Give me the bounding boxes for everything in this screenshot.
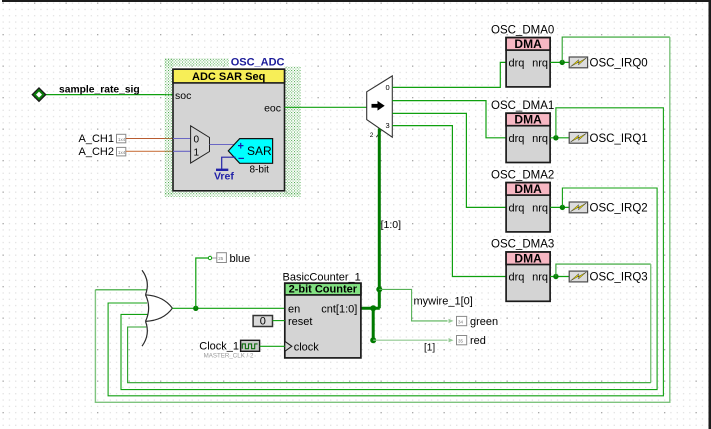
svg-text:cnt[1:0]: cnt[1:0]: [321, 303, 357, 315]
svg-text:8-bit: 8-bit: [250, 164, 270, 175]
svg-text:DMA: DMA: [514, 182, 542, 196]
wire demux out1 to DMA1 drq: [392, 101, 506, 138]
DMA3 block: [506, 251, 550, 301]
svg-text:drq: drq: [509, 202, 525, 214]
demux bus width marker 2: [370, 131, 382, 139]
wire A_CH2: [126, 150, 173, 152]
terminal green arrow: [449, 319, 454, 323]
wire DMA2 nrq to isr: [550, 206, 569, 208]
pin clock with edge triangle: [285, 341, 319, 353]
svg-text:MASTER_CLK / 2: MASTER_CLK / 2: [204, 353, 254, 360]
selection hatch around OSC_ADC: [165, 54, 303, 197]
wire sample_rate_sig to soc: [46, 94, 174, 96]
terminal A_CH2: [117, 147, 126, 156]
wire demux out0 to DMA0 drq: [392, 62, 506, 87]
wire DMA1 nrq to isr: [550, 137, 569, 139]
svg-text:drq: drq: [509, 57, 525, 69]
svg-text:A_CH1: A_CH1: [79, 133, 114, 145]
wire feedback loop DMA2 to OR input 3: [121, 188, 657, 390]
svg-text:OSC_DMA0: OSC_DMA0: [491, 24, 554, 36]
wire mux output to SAR: [210, 144, 235, 146]
junction DMA0 nrq: [560, 60, 565, 65]
terminal sample_rate_sig diamond: [32, 88, 45, 101]
svg-text:DMA: DMA: [514, 251, 542, 265]
wire mux input 0 (blue): [173, 138, 191, 140]
stub to blue box: [212, 257, 217, 259]
wire feedback loop DMA0 to OR input 1: [562, 37, 670, 62]
terminal red box: [457, 336, 467, 345]
open pin circle blue: [208, 256, 211, 259]
wire demux out2 to DMA2 drq: [392, 113, 506, 207]
wire OR output to counter en: [172, 307, 285, 309]
junction OR output: [193, 306, 198, 311]
svg-text:OSC_DMA2: OSC_DMA2: [491, 169, 554, 181]
wire feedback loop DMA1 to OR input 2: [108, 108, 663, 396]
wire eoc to demux: [285, 106, 367, 108]
svg-text:1x4: 1x4: [118, 150, 126, 155]
wire mywire_1[0] branch: [379, 289, 447, 321]
svg-text:0: 0: [194, 134, 200, 145]
bus [1:0] from counter to demux: [361, 129, 380, 341]
DMA0 block: [506, 37, 550, 87]
wire clock to counter: [260, 345, 285, 347]
ADC block U_ADC body: [173, 69, 285, 191]
svg-text:nrq: nrq: [532, 202, 548, 214]
terminal blue box: [217, 253, 227, 263]
svg-text:Clock_1: Clock_1: [199, 341, 239, 353]
svg-text:blue: blue: [230, 253, 251, 265]
wire DMA0 nrq to isr: [550, 61, 569, 63]
mux inside ADC: [191, 126, 210, 163]
wire A_CH1: [126, 138, 173, 140]
wire to blue terminal: [196, 258, 208, 308]
svg-text:drq: drq: [509, 133, 525, 145]
terminal green box: [457, 316, 467, 325]
Vref symbol: [214, 157, 236, 182]
svg-text:OSC_IRQ3: OSC_IRQ3: [590, 272, 648, 284]
canvas right border: [709, 0, 711, 429]
wire mux input 1 (blue): [173, 150, 191, 152]
wire feedback loop DMA3 to OR input 4: [556, 264, 651, 276]
svg-text:green: green: [470, 316, 498, 328]
terminal A_CH1: [117, 134, 126, 143]
svg-text:DMA: DMA: [514, 37, 542, 51]
svg-text:Vref: Vref: [214, 171, 234, 183]
DMA2 block: [506, 182, 550, 232]
svg-text:0: 0: [386, 83, 390, 92]
svg-text:nrq: nrq: [532, 272, 548, 284]
svg-text:[1]: [1]: [424, 342, 435, 353]
svg-text:+: +: [238, 140, 244, 152]
svg-text:drq: drq: [509, 272, 525, 284]
isr OSC_IRQ1 icon: [569, 132, 587, 143]
svg-text:OSC_IRQ1: OSC_IRQ1: [590, 133, 648, 145]
junction DMA1 nrq: [553, 135, 558, 140]
terminal red arrow: [449, 338, 454, 342]
svg-text:35: 35: [458, 339, 464, 344]
junction DMA3 nrq: [553, 274, 558, 279]
wire red branch [1]: [373, 339, 447, 341]
wire 0 to reset: [273, 320, 285, 322]
junction on bus (cnt): [370, 305, 376, 311]
SAR converter symbol: [228, 139, 272, 165]
svg-text:0: 0: [260, 316, 266, 328]
svg-text:A_CH2: A_CH2: [79, 146, 114, 158]
canvas top border: [2, 0, 711, 2]
wire demux out3 to DMA3 drq: [392, 126, 506, 277]
svg-text:nrq: nrq: [532, 57, 548, 69]
svg-text:eoc: eoc: [264, 103, 281, 115]
svg-text:OSC_DMA3: OSC_DMA3: [491, 239, 554, 251]
svg-text:OSC_IRQ0: OSC_IRQ0: [590, 58, 648, 70]
constant 0 box: [253, 316, 272, 328]
svg-text:25: 25: [218, 256, 224, 261]
svg-text:red: red: [470, 335, 486, 347]
svg-text:reset: reset: [288, 316, 312, 328]
svg-text:BasicCounter_1: BasicCounter_1: [283, 271, 361, 283]
svg-text:mywire_1[0]: mywire_1[0]: [414, 296, 473, 308]
junction DMA2 nrq: [560, 205, 565, 210]
svg-text:OSC_DMA1: OSC_DMA1: [491, 100, 554, 112]
svg-text:SAR: SAR: [247, 144, 272, 158]
svg-text:1: 1: [194, 147, 200, 158]
demux U_DEMUX: [367, 76, 393, 137]
svg-text:2: 2: [370, 132, 374, 139]
svg-text:ADC SAR Seq: ADC SAR Seq: [192, 71, 265, 83]
svg-text:nrq: nrq: [532, 133, 548, 145]
svg-text:[1:0]: [1:0]: [381, 219, 402, 231]
svg-text:−: −: [238, 153, 244, 165]
DMA1 block: [506, 113, 550, 163]
junction on bus (bit1 tap): [370, 337, 376, 343]
svg-text:sample_rate_sig: sample_rate_sig: [59, 85, 140, 96]
svg-text:clock: clock: [294, 342, 320, 354]
counter block body: [285, 283, 361, 358]
counter header 2-bit Counter: [285, 283, 361, 295]
isr OSC_IRQ3 icon: [569, 271, 587, 282]
svg-text:OSC_ADC: OSC_ADC: [231, 57, 285, 69]
svg-text:3: 3: [386, 121, 390, 130]
clock Clock_1 icon: [241, 340, 260, 351]
svg-text:34: 34: [458, 320, 464, 325]
junction on bus (mywire tap): [376, 286, 382, 292]
svg-text:DMA: DMA: [514, 113, 542, 127]
svg-text:soc: soc: [175, 90, 191, 102]
OR gate U_OR: [142, 270, 172, 346]
wire DMA3 nrq to isr: [550, 276, 569, 278]
svg-text:en: en: [288, 303, 300, 315]
isr OSC_IRQ0 icon: [569, 57, 587, 68]
svg-text:1x4: 1x4: [118, 137, 126, 142]
svg-text:OSC_IRQ2: OSC_IRQ2: [590, 203, 648, 215]
svg-text:2-bit Counter: 2-bit Counter: [289, 284, 358, 296]
ADC block header ADC SAR Seq: [173, 69, 285, 83]
isr OSC_IRQ2 icon: [569, 202, 587, 213]
